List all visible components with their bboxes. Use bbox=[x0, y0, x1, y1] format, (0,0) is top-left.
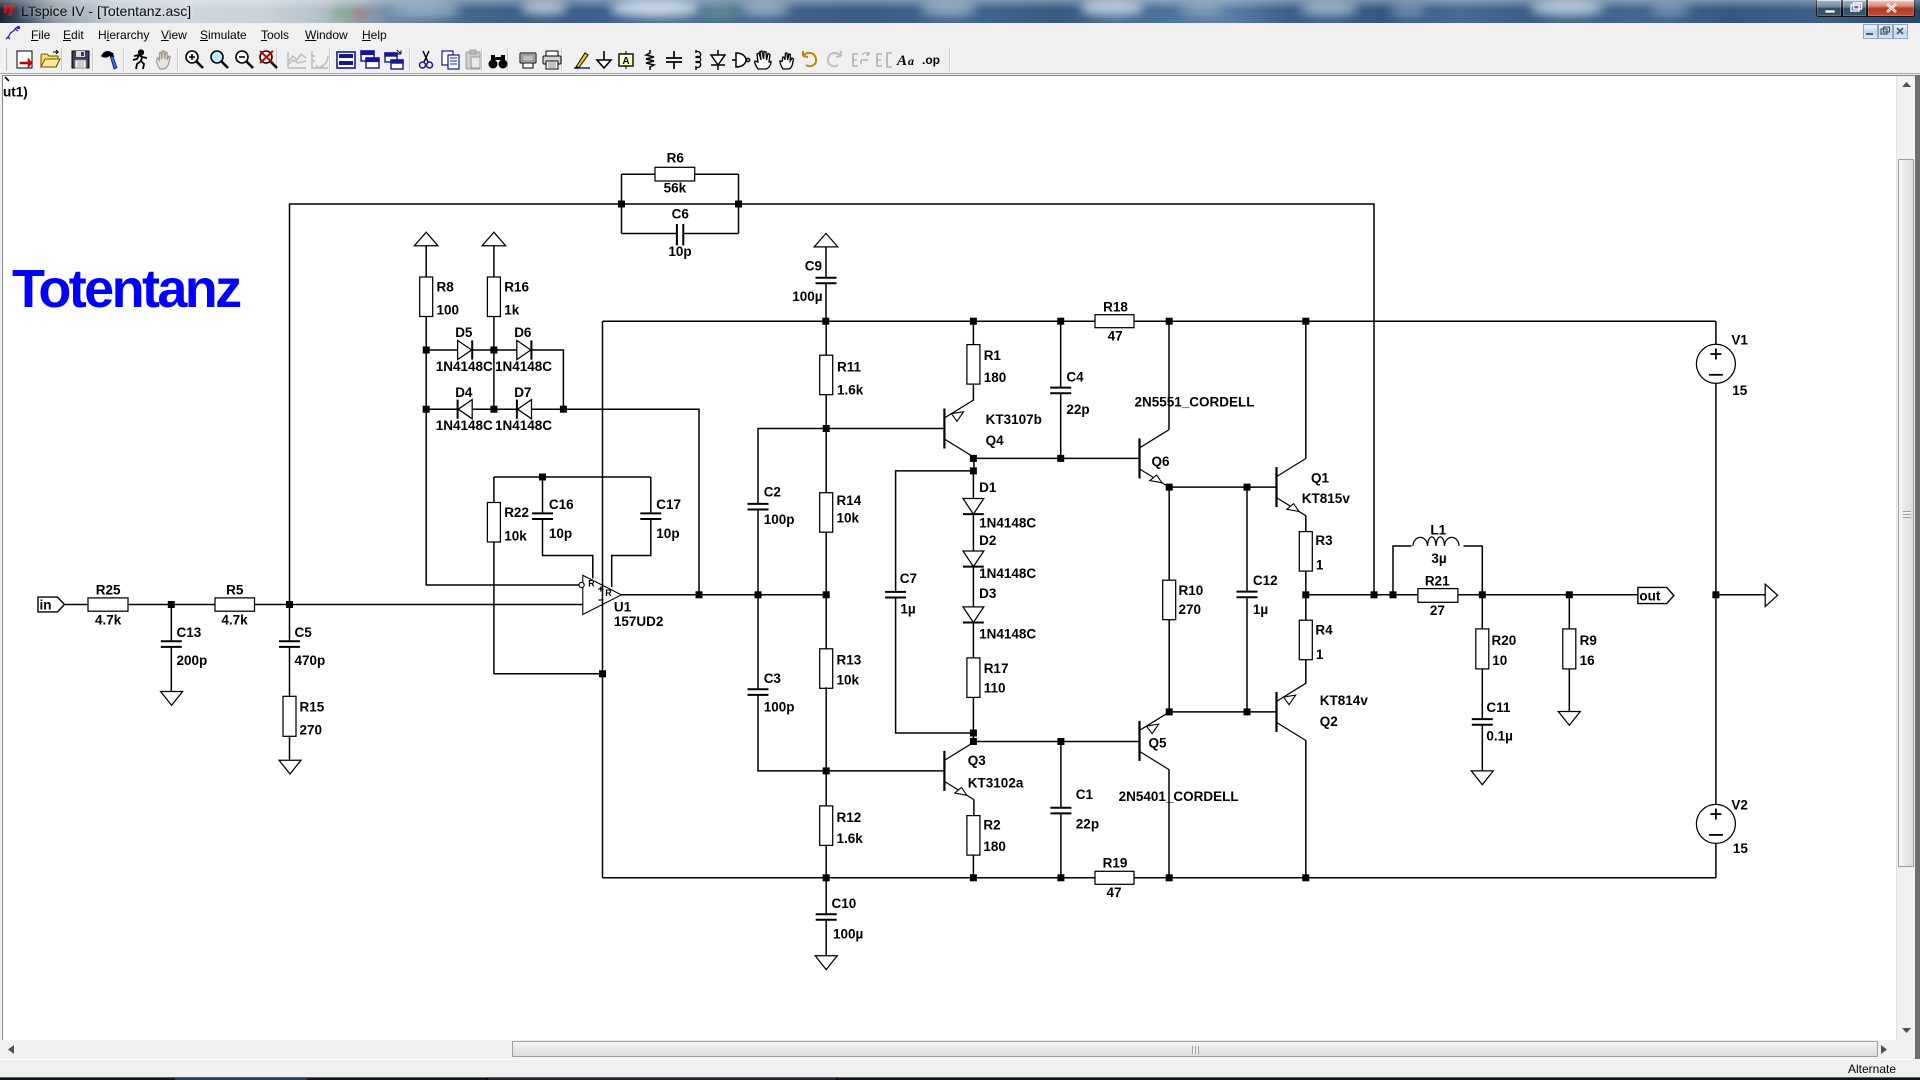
svg-text:C3: C3 bbox=[764, 671, 782, 686]
power flag above R8 bbox=[414, 232, 438, 246]
wire D5 to D6 bbox=[473, 349, 517, 351]
wire R3 to output row bbox=[1305, 571, 1307, 595]
svg-text:Q5: Q5 bbox=[1149, 736, 1168, 751]
inductor L1 bbox=[1413, 537, 1459, 546]
svg-text:R1: R1 bbox=[984, 348, 1002, 363]
wire R22 top lead bbox=[493, 477, 495, 503]
wire C11 bottom lead bbox=[1481, 725, 1483, 771]
power flag above R16 bbox=[482, 232, 506, 246]
svg-text:out: out bbox=[1639, 589, 1660, 604]
wire R6 top left lead bbox=[622, 173, 656, 175]
svg-text:ut1): ut1) bbox=[3, 85, 28, 100]
node n-out-fb bbox=[1371, 591, 1378, 598]
node n-inv-in bbox=[286, 601, 293, 608]
svg-text:R6: R6 bbox=[667, 151, 685, 166]
diode D6 bbox=[517, 340, 532, 359]
svg-text:R11: R11 bbox=[837, 359, 862, 374]
wire R13 top lead bbox=[825, 595, 827, 649]
svg-text:1: 1 bbox=[1316, 558, 1324, 573]
wire Q5 collector down bbox=[1168, 770, 1170, 878]
wire bottom supply rail bbox=[603, 877, 1716, 879]
window title bar bbox=[0, 0, 1920, 23]
node n-q4coll bbox=[970, 455, 977, 462]
svg-text:C10: C10 bbox=[832, 896, 857, 911]
node n-c12top bbox=[1244, 484, 1251, 491]
resistor R17 bbox=[967, 658, 980, 698]
wire R5 to opamp bbox=[255, 604, 583, 606]
diode D1 bbox=[963, 499, 984, 515]
wire R20 top lead bbox=[1481, 595, 1483, 629]
svg-text:R15: R15 bbox=[300, 699, 325, 714]
wire D2 to D3 bbox=[972, 567, 974, 607]
node n-C13 bbox=[168, 601, 175, 608]
resistor R5 bbox=[215, 598, 255, 611]
wire R6 top right lead bbox=[695, 173, 739, 175]
svg-text:D3: D3 bbox=[979, 586, 997, 601]
resistor R20 bbox=[1476, 629, 1489, 669]
node n-rail2-r2 bbox=[970, 874, 977, 881]
svg-text:56k: 56k bbox=[664, 181, 687, 196]
wire C4 bottom lead bbox=[1060, 394, 1062, 459]
ground R15 ground bbox=[279, 760, 301, 774]
node feedback-left bbox=[618, 201, 625, 208]
wire D4 cathode lead bbox=[426, 408, 458, 410]
vertical scrollbar bbox=[1896, 76, 1915, 1040]
wire C10 bottom lead bbox=[825, 920, 827, 955]
wire flag to R16 bbox=[493, 246, 495, 277]
wire C17 top lead bbox=[650, 477, 652, 513]
capacitor C1 bbox=[1050, 808, 1071, 814]
capacitor C9 bbox=[816, 278, 837, 284]
svg-text:27: 27 bbox=[1430, 603, 1445, 618]
diode D3 bbox=[963, 607, 984, 623]
node n-R22fb bbox=[599, 670, 606, 677]
svg-text:22p: 22p bbox=[1066, 402, 1089, 417]
svg-text:C6: C6 bbox=[672, 207, 690, 222]
wire C7 branch top bbox=[896, 471, 974, 592]
wire R25 to R5 bbox=[128, 604, 215, 606]
svg-text:1N4148C: 1N4148C bbox=[495, 359, 552, 374]
svg-text:KT3102a: KT3102a bbox=[968, 776, 1024, 791]
taskbar sliver bbox=[0, 1077, 1920, 1080]
svg-text:R13: R13 bbox=[837, 653, 862, 668]
node n-bias-c12 bbox=[1244, 708, 1251, 715]
svg-text:110: 110 bbox=[984, 680, 1006, 695]
svg-text:1.6k: 1.6k bbox=[837, 831, 864, 846]
svg-text:R17: R17 bbox=[984, 661, 1009, 676]
diode D7 bbox=[517, 400, 532, 419]
svg-text:R10: R10 bbox=[1179, 583, 1204, 598]
node n-vas-c4 bbox=[1057, 455, 1064, 462]
wire V2 to bottom rail bbox=[1715, 843, 1717, 877]
svg-text:1N4148C: 1N4148C bbox=[979, 515, 1036, 530]
svg-text:0.1µ: 0.1µ bbox=[1486, 729, 1513, 744]
wire C2 bottom lead bbox=[757, 510, 759, 595]
transistor Q4 KT3107b bbox=[944, 400, 974, 457]
svg-text:R16: R16 bbox=[504, 280, 529, 295]
resistor R8 bbox=[420, 277, 433, 317]
wire V2 top lead bbox=[1715, 595, 1717, 805]
wire vas row bbox=[973, 457, 1139, 459]
svg-text:10k: 10k bbox=[837, 673, 860, 688]
svg-text:1N4148C: 1N4148C bbox=[436, 359, 493, 374]
svg-text:157UD2: 157UD2 bbox=[614, 614, 664, 629]
wire Q4 collector stub bbox=[973, 457, 975, 471]
ground R9 ground bbox=[1558, 712, 1580, 726]
svg-text:2N5551_CORDELL: 2N5551_CORDELL bbox=[1135, 394, 1255, 409]
capacitor C16 bbox=[532, 513, 553, 519]
svg-text:C11: C11 bbox=[1486, 700, 1511, 715]
svg-text:1.6k: 1.6k bbox=[837, 383, 864, 398]
svg-text:1N4148C: 1N4148C bbox=[436, 418, 493, 433]
capacitor C7 bbox=[885, 592, 906, 598]
node n-out-l1b bbox=[1479, 591, 1486, 598]
svg-text:3µ: 3µ bbox=[1431, 551, 1446, 566]
wire R9 bottom lead bbox=[1568, 669, 1570, 712]
svg-text:10p: 10p bbox=[668, 244, 691, 259]
resistor R13 bbox=[820, 649, 833, 689]
node n-out-d7 bbox=[696, 591, 703, 598]
svg-text:200p: 200p bbox=[177, 653, 208, 668]
voltage source V2 bbox=[1696, 804, 1735, 843]
svg-text:C17: C17 bbox=[656, 497, 681, 512]
svg-text:100p: 100p bbox=[764, 512, 795, 527]
svg-text:C9: C9 bbox=[805, 259, 822, 274]
svg-text:KT3107b: KT3107b bbox=[986, 412, 1042, 427]
capacitor C13 bbox=[161, 641, 182, 647]
resistor R12 bbox=[820, 806, 833, 846]
wire C5 to R15 bbox=[289, 648, 291, 697]
svg-text:D1: D1 bbox=[979, 480, 997, 495]
resistor R11 bbox=[820, 355, 833, 395]
svg-text:270: 270 bbox=[1179, 602, 1202, 617]
horizontal scrollbar bbox=[2, 1040, 1915, 1059]
wire R10 top lead bbox=[1168, 487, 1170, 580]
wire C4 top lead bbox=[1060, 321, 1062, 387]
node n-out-r14 bbox=[823, 591, 830, 598]
node n-D5a bbox=[423, 347, 430, 354]
wire out node arrow wire bbox=[1716, 594, 1765, 596]
svg-text:100: 100 bbox=[437, 303, 460, 318]
transistor Q3 KT3102a bbox=[944, 742, 974, 799]
svg-text:D4: D4 bbox=[455, 385, 473, 400]
svg-text:R3: R3 bbox=[1315, 533, 1333, 548]
resistor R14 bbox=[820, 493, 833, 533]
wire flag to R8 bbox=[425, 246, 427, 277]
node n-rail2-q2 bbox=[1302, 874, 1309, 881]
wire C1 bottom lead bbox=[1060, 814, 1062, 878]
wire R17 bottom lead bbox=[972, 697, 974, 733]
status bar bbox=[0, 1059, 1920, 1077]
wire R1 top lead bbox=[972, 321, 974, 344]
wire R4 top lead bbox=[1305, 595, 1307, 620]
wire D7 row to output bbox=[532, 409, 700, 595]
resistor R18 bbox=[1095, 315, 1134, 328]
svg-text:1µ: 1µ bbox=[900, 601, 915, 616]
node n-D5b bbox=[490, 347, 497, 354]
svg-text:47: 47 bbox=[1108, 329, 1123, 344]
node n-rail-R1 bbox=[970, 318, 977, 325]
wire C16 to opamp pin bbox=[543, 520, 593, 579]
wire V1 to out node bbox=[1715, 383, 1717, 595]
wire C12 bottom lead bbox=[1246, 598, 1248, 712]
node n-C2row bbox=[823, 425, 830, 432]
capacitor C2 bbox=[748, 504, 769, 510]
wire R22 bottom to inv rail bbox=[494, 542, 603, 674]
svg-text:100µ: 100µ bbox=[792, 289, 822, 304]
svg-text:1N4148C: 1N4148C bbox=[979, 626, 1036, 641]
svg-text:Q2: Q2 bbox=[1320, 714, 1338, 729]
svg-text:R20: R20 bbox=[1492, 633, 1517, 648]
svg-text:R12: R12 bbox=[837, 810, 862, 825]
power flag above C9 bbox=[814, 233, 838, 247]
node n-rail2-q5 bbox=[1166, 874, 1173, 881]
wire R20 to C11 bbox=[1481, 669, 1483, 719]
svg-text:100p: 100p bbox=[764, 699, 795, 714]
svg-text:10k: 10k bbox=[504, 529, 527, 544]
node n-q6em bbox=[1166, 484, 1173, 491]
node n-rail-C4 bbox=[1057, 318, 1064, 325]
node n-D7a bbox=[490, 406, 497, 413]
wire feedback loop top bbox=[290, 204, 1375, 605]
wire Q3-Q5 base row bbox=[973, 741, 1139, 743]
capacitor C4 bbox=[1050, 388, 1071, 394]
wire D4 to D7 bbox=[472, 408, 517, 410]
node n-rail-C9 bbox=[822, 318, 829, 325]
ground C13 ground bbox=[161, 692, 183, 706]
wire C5 top lead bbox=[289, 605, 291, 642]
wire R11 top lead bbox=[825, 321, 827, 355]
wire C10 top lead bbox=[825, 878, 827, 914]
wire rail to V1 bbox=[1715, 321, 1717, 344]
wire inverting feedback vertical bbox=[602, 321, 604, 878]
svg-text:180: 180 bbox=[983, 839, 1006, 854]
wire C3 to Q3 base bbox=[758, 696, 944, 771]
svg-text:15: 15 bbox=[1732, 383, 1748, 398]
node n-bias-bot bbox=[1166, 708, 1173, 715]
wire R4 to Q2 emitter bbox=[1305, 660, 1307, 684]
node feedback-right bbox=[735, 201, 742, 208]
capacitor C12 bbox=[1237, 592, 1258, 598]
menu bar bbox=[0, 23, 1920, 45]
node n-out-l1a bbox=[1390, 591, 1397, 598]
svg-text:C2: C2 bbox=[764, 484, 781, 499]
wire C7 branch bottom bbox=[896, 598, 974, 733]
svg-text:10p: 10p bbox=[549, 526, 572, 541]
node n-rail2-R12 bbox=[823, 874, 830, 881]
resistor R22 bbox=[487, 503, 500, 543]
resistor R6 bbox=[655, 167, 695, 181]
diode D4 bbox=[458, 400, 473, 419]
svg-text:R8: R8 bbox=[437, 280, 455, 295]
transistor Q2 KT814v bbox=[1277, 683, 1307, 740]
wire flag to C9 bbox=[825, 247, 827, 278]
node n-vmid bbox=[1712, 591, 1719, 598]
wire C9 bottom lead bbox=[825, 284, 827, 321]
svg-text:4.7k: 4.7k bbox=[221, 613, 248, 628]
svg-text:D6: D6 bbox=[514, 325, 532, 340]
svg-text:Q6: Q6 bbox=[1152, 454, 1171, 469]
ground C10 ground bbox=[815, 956, 837, 970]
wire D3 to R17 bbox=[972, 623, 974, 658]
wire Q3 emitter to R2 bbox=[973, 800, 975, 816]
diode D2 bbox=[963, 551, 984, 567]
resistor R15 bbox=[283, 696, 296, 736]
wire Q2 collector down bbox=[1305, 741, 1307, 878]
resistor R16 bbox=[487, 277, 500, 317]
wire R9 top lead bbox=[1568, 595, 1570, 629]
wire C1 top lead bbox=[1060, 742, 1062, 808]
svg-text:R22: R22 bbox=[504, 505, 529, 520]
svg-text:180: 180 bbox=[984, 370, 1007, 385]
svg-text:R18: R18 bbox=[1103, 300, 1128, 315]
wire in to R25 bbox=[65, 604, 88, 606]
wire L1 left leg bbox=[1393, 546, 1412, 595]
wire C3 top lead bbox=[757, 595, 759, 690]
wire D6 to corner down bbox=[531, 350, 563, 409]
svg-text:C1: C1 bbox=[1076, 787, 1094, 802]
wire Q6 collector up bbox=[1168, 321, 1170, 430]
svg-text:R14: R14 bbox=[837, 493, 862, 508]
svg-text:−: − bbox=[598, 595, 604, 607]
svg-text:R: R bbox=[605, 588, 612, 598]
wire Q1 collector up bbox=[1305, 321, 1307, 458]
svg-text:R2: R2 bbox=[983, 818, 1000, 833]
svg-text:1N4148C: 1N4148C bbox=[979, 566, 1036, 581]
resistor R25 bbox=[88, 598, 128, 611]
node n-D7b bbox=[560, 406, 567, 413]
diode D5 bbox=[458, 340, 473, 359]
wire C17 to opamp pin bbox=[612, 520, 651, 587]
wire R15 bottom lead bbox=[289, 736, 291, 760]
node n-q3coll-a bbox=[970, 730, 977, 737]
node n-C16top bbox=[539, 474, 546, 481]
wire R2 bottom lead bbox=[972, 855, 974, 878]
wire output stage row bbox=[1306, 594, 1638, 596]
svg-text:15: 15 bbox=[1733, 841, 1749, 856]
op-amp U1 157UD2 bbox=[579, 575, 621, 614]
capacitor C6 bbox=[677, 224, 683, 245]
resistor R21 bbox=[1418, 589, 1458, 603]
svg-text:in: in bbox=[40, 598, 52, 613]
ground C11 ground bbox=[1471, 771, 1493, 785]
resistor R9 bbox=[1563, 629, 1576, 669]
node n-q3base bbox=[823, 767, 830, 774]
toolbar bbox=[0, 45, 1920, 74]
node n-c7top bbox=[970, 467, 977, 474]
node n-q3coll-b bbox=[970, 738, 977, 745]
svg-text:Q1: Q1 bbox=[1311, 470, 1330, 485]
resistor R4 bbox=[1299, 620, 1312, 660]
transistor Q6 2N5551 bbox=[1140, 430, 1170, 487]
svg-text:Totentanz: Totentanz bbox=[12, 259, 241, 319]
svg-text:47: 47 bbox=[1106, 885, 1121, 900]
svg-text:D7: D7 bbox=[514, 385, 531, 400]
svg-text:U1: U1 bbox=[614, 600, 632, 615]
svg-text:10p: 10p bbox=[656, 526, 679, 541]
svg-text:D5: D5 bbox=[455, 325, 473, 340]
svg-text:V1: V1 bbox=[1731, 333, 1748, 348]
port out bbox=[1638, 587, 1674, 603]
capacitor C11 bbox=[1472, 719, 1493, 725]
wire R14 bottom lead bbox=[825, 532, 827, 595]
capacitor C5 bbox=[279, 641, 300, 647]
wire R16 to D7 row bbox=[493, 317, 495, 410]
node n-out-c2 bbox=[755, 591, 762, 598]
svg-text:1k: 1k bbox=[504, 303, 520, 318]
wire R12 bottom lead bbox=[825, 845, 827, 878]
svg-text:10: 10 bbox=[1492, 653, 1507, 668]
wire Q1 emitter to R3 bbox=[1305, 516, 1307, 532]
svg-text:R5: R5 bbox=[226, 583, 244, 598]
wire C13 top lead bbox=[170, 605, 172, 642]
wire Q4c to D1 bbox=[972, 471, 974, 499]
resistor R19 bbox=[1095, 871, 1134, 884]
capacitor C3 bbox=[748, 689, 769, 695]
svg-text:C4: C4 bbox=[1066, 370, 1084, 385]
wire L1 right leg bbox=[1464, 546, 1483, 595]
node n-rail-q6 bbox=[1166, 318, 1173, 325]
wire C12 top lead bbox=[1246, 487, 1248, 591]
svg-text:R19: R19 bbox=[1103, 856, 1128, 871]
node n-rail2-c1 bbox=[1057, 874, 1064, 881]
wire D1 to D2 bbox=[972, 515, 974, 551]
svg-text:10k: 10k bbox=[837, 511, 860, 526]
wire R6-C6 left stub bbox=[621, 174, 623, 233]
wire Q3 collector stub bbox=[972, 733, 974, 742]
svg-text:1: 1 bbox=[1316, 647, 1324, 662]
svg-text:C13: C13 bbox=[177, 625, 202, 640]
node n-rail-q1 bbox=[1302, 318, 1309, 325]
svg-text:100µ: 100µ bbox=[833, 927, 863, 942]
wire R8 to noninv input bbox=[426, 317, 583, 586]
svg-text:R4: R4 bbox=[1315, 623, 1333, 638]
wire R6-C6 right stub bbox=[738, 174, 740, 233]
resistor R1 bbox=[967, 345, 980, 385]
net arrow marker bbox=[1765, 584, 1777, 606]
port in bbox=[38, 597, 65, 612]
svg-text:470p: 470p bbox=[295, 653, 326, 668]
wire C6 right lead bbox=[684, 233, 739, 235]
node n-c1top bbox=[1057, 738, 1064, 745]
svg-text:1µ: 1µ bbox=[1253, 602, 1268, 617]
node n-out-r9 bbox=[1566, 591, 1573, 598]
svg-text:R: R bbox=[588, 579, 595, 589]
svg-text:270: 270 bbox=[300, 722, 323, 737]
svg-text:R21: R21 bbox=[1425, 574, 1450, 589]
capacitor C10 bbox=[816, 914, 837, 920]
svg-text:16: 16 bbox=[1580, 653, 1596, 668]
wire output base row bbox=[1169, 711, 1276, 713]
wire C13 bottom lead bbox=[170, 648, 172, 692]
wire D5 anode lead bbox=[426, 349, 457, 351]
svg-text:D2: D2 bbox=[979, 533, 996, 548]
svg-text:R25: R25 bbox=[96, 583, 121, 598]
transistor Q5 2N5401 bbox=[1140, 712, 1170, 769]
resistor R3 bbox=[1299, 532, 1312, 572]
wire Q4 base wire bbox=[826, 428, 944, 430]
svg-text:L1: L1 bbox=[1430, 522, 1446, 537]
wire Q5 emitter up bbox=[1168, 711, 1170, 714]
svg-text:Q4: Q4 bbox=[986, 433, 1005, 448]
wire comp top rail bbox=[494, 476, 651, 478]
svg-text:R9: R9 bbox=[1580, 633, 1597, 648]
wire R13 to R12 bbox=[825, 687, 827, 806]
svg-text:4.7k: 4.7k bbox=[95, 613, 122, 628]
svg-text:2N5401_CORDELL: 2N5401_CORDELL bbox=[1119, 789, 1239, 804]
resistor R10 bbox=[1163, 580, 1176, 620]
resistor R2 bbox=[967, 816, 980, 856]
